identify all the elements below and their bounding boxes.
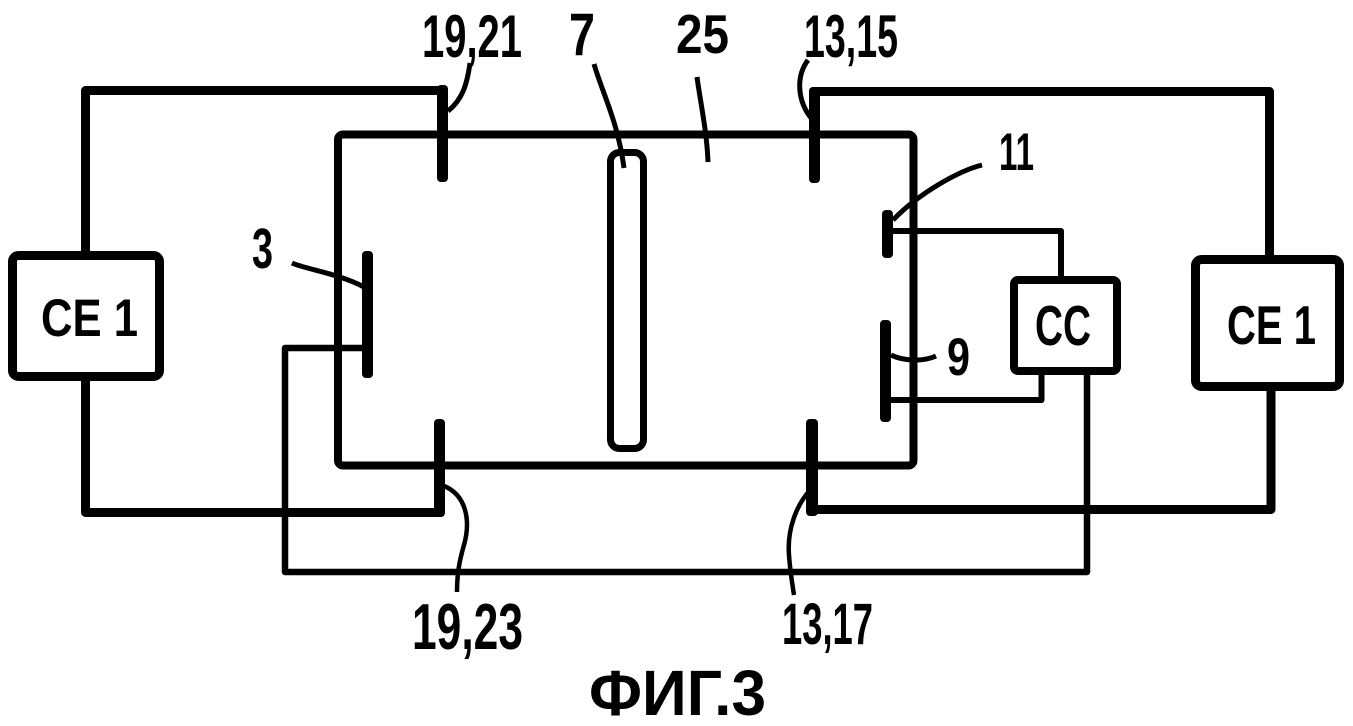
svg-text:CC: CC	[1035, 294, 1091, 358]
svg-text:25: 25	[676, 3, 729, 65]
svg-text:CE 1: CE 1	[1227, 294, 1316, 356]
svg-text:3: 3	[252, 217, 273, 281]
svg-text:19,21: 19,21	[422, 3, 522, 70]
svg-text:CE 1: CE 1	[41, 289, 138, 348]
svg-text:11: 11	[999, 123, 1034, 182]
svg-text:13,17: 13,17	[782, 592, 873, 657]
svg-text:13,15: 13,15	[804, 3, 898, 70]
svg-text:9: 9	[947, 328, 970, 387]
svg-text:7: 7	[569, 1, 595, 68]
svg-text:ФИГ.3: ФИГ.3	[589, 657, 766, 726]
svg-text:19,23: 19,23	[412, 590, 523, 663]
